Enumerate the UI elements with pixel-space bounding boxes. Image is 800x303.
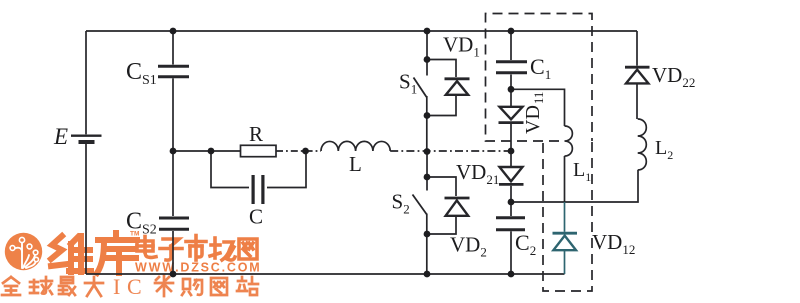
glyph zhan bbox=[237, 277, 247, 291]
svg-text:R: R bbox=[249, 122, 263, 146]
wire VD1 loop bbox=[427, 60, 456, 78]
capacitor CS1 bbox=[158, 66, 189, 76]
wire mid to R bbox=[173, 150, 241, 152]
svg-text:CS2: CS2 bbox=[126, 209, 157, 238]
node mid-VD bbox=[508, 148, 515, 155]
wire CS1 top bbox=[172, 31, 174, 65]
node S1-top bbox=[424, 56, 431, 63]
wire S2 bottom bbox=[426, 214, 428, 275]
glyph chang bbox=[210, 238, 235, 260]
wire C1 top bbox=[510, 31, 512, 60]
inductor L2 bbox=[638, 119, 647, 170]
svg-text:VD21: VD21 bbox=[456, 160, 499, 187]
wire VD2 bottom bbox=[427, 217, 456, 234]
switch S2 bbox=[413, 195, 427, 215]
wire left rail lower bbox=[85, 144, 87, 274]
svg-text:S2: S2 bbox=[392, 190, 410, 217]
svg-text:L: L bbox=[349, 152, 362, 176]
wire node C1 to L1 bbox=[511, 89, 565, 126]
svg-text:VD12: VD12 bbox=[592, 230, 635, 257]
node bottom-CS bbox=[170, 271, 177, 278]
wire CS2 bottom bbox=[172, 231, 174, 274]
glyph cai bbox=[156, 276, 169, 281]
glyph gou bbox=[182, 279, 191, 295]
logo circle bbox=[5, 233, 42, 270]
node mid-S bbox=[424, 148, 431, 155]
svg-text:S1: S1 bbox=[399, 70, 417, 97]
inductor L bbox=[321, 141, 390, 151]
dashed box B bbox=[543, 141, 592, 291]
svg-text:C: C bbox=[127, 274, 142, 299]
node mid-CS bbox=[170, 148, 177, 155]
diode VD12 bbox=[553, 202, 578, 274]
glyph quan bbox=[3, 277, 19, 283]
svg-text:L1: L1 bbox=[573, 159, 591, 184]
glyph wang2 bbox=[211, 278, 227, 295]
node top-S1 bbox=[424, 28, 431, 35]
node S1-bottom bbox=[424, 112, 431, 119]
big glyph ku bbox=[97, 233, 137, 273]
capacitor CS2 bbox=[159, 218, 189, 229]
wire CS1 bottom bbox=[172, 78, 174, 151]
node S2-top bbox=[424, 174, 431, 181]
diode VD21 bbox=[499, 151, 524, 202]
diode VD11 bbox=[499, 107, 524, 123]
svg-text:WWW.DZSC.COM: WWW.DZSC.COM bbox=[135, 261, 261, 275]
wire top rail bbox=[86, 30, 637, 32]
svg-text:VD11: VD11 bbox=[522, 92, 546, 134]
wire left rail upper bbox=[85, 31, 87, 134]
switch S1 bbox=[414, 78, 427, 98]
glyph zui bbox=[61, 277, 73, 283]
svg-text:CS1: CS1 bbox=[126, 59, 157, 88]
wire C branch left bbox=[211, 151, 249, 188]
svg-text:C: C bbox=[249, 205, 263, 229]
dashed box A bbox=[486, 14, 593, 142]
node C1-bottom bbox=[508, 86, 515, 93]
big glyph wei bbox=[51, 236, 91, 272]
wire C2 bottom bbox=[510, 231, 512, 274]
node S2-bottom bbox=[424, 231, 431, 238]
wire VD11 bottom bbox=[510, 124, 512, 151]
glyph dian bbox=[137, 237, 156, 258]
capacitor C2 bbox=[496, 218, 525, 230]
node bottom-S2 bbox=[424, 271, 431, 278]
glyph shi bbox=[186, 236, 206, 261]
glyph wang bbox=[239, 239, 257, 259]
wire bottom rail bbox=[86, 273, 565, 275]
wire VD1 bottom bbox=[427, 96, 456, 116]
wire VD2 loop bbox=[427, 177, 456, 196]
wire S1 top bbox=[426, 31, 428, 76]
wire L1 bottom bbox=[564, 156, 566, 202]
wire CS2 top bbox=[172, 151, 174, 216]
inductor L1 bbox=[565, 126, 573, 156]
svg-text:I: I bbox=[113, 274, 120, 299]
capacitor C bbox=[253, 175, 263, 204]
svg-text:C2: C2 bbox=[515, 230, 536, 258]
wire dashed R to L bbox=[276, 150, 321, 152]
diode VD1 bbox=[445, 79, 470, 95]
node top-CS bbox=[170, 28, 177, 35]
wire S1 bottom bbox=[426, 96, 428, 151]
wire S2 top bbox=[426, 151, 428, 191]
wire dashed L to mid node bbox=[390, 150, 511, 152]
svg-text:VD22: VD22 bbox=[652, 63, 695, 90]
wire output bbox=[511, 170, 638, 202]
node bottom-C2 bbox=[508, 271, 515, 278]
diode VD2 bbox=[445, 198, 470, 216]
node mid-RC-right bbox=[302, 148, 309, 155]
capacitor C1 bbox=[496, 62, 527, 73]
svg-text:L2: L2 bbox=[655, 137, 673, 162]
diode VD22 bbox=[625, 31, 650, 119]
wire C branch right bbox=[267, 151, 306, 188]
glyph qiu bbox=[30, 280, 38, 293]
svg-text:VD1: VD1 bbox=[443, 33, 480, 60]
glyph zi bbox=[160, 239, 182, 260]
node top-C1 bbox=[508, 28, 515, 35]
resistor R bbox=[241, 145, 277, 156]
node mid-RC-left bbox=[208, 148, 215, 155]
bottom row glyphs bbox=[2, 274, 258, 299]
svg-text:E: E bbox=[53, 124, 68, 149]
wire C1 bottom bbox=[510, 75, 512, 107]
glyph da bbox=[85, 277, 103, 285]
svg-text:VD2: VD2 bbox=[450, 233, 487, 260]
battery E bbox=[71, 136, 102, 142]
svg-text:C1: C1 bbox=[530, 54, 551, 82]
node VD21-bottom bbox=[508, 199, 515, 206]
wire C2 top bbox=[510, 202, 512, 216]
